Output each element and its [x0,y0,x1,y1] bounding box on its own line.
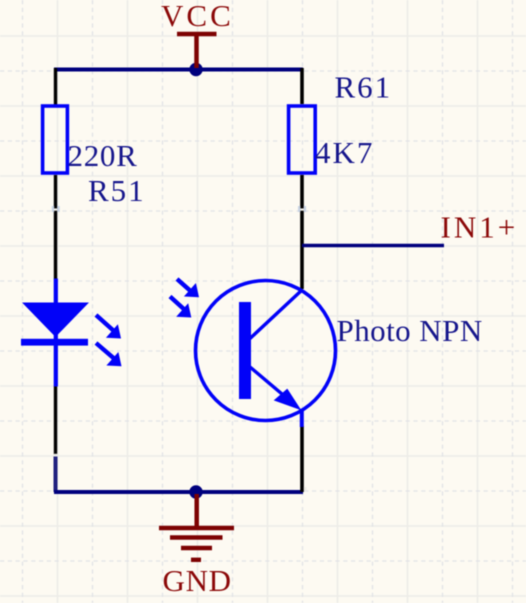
resistor R61 [289,106,316,173]
svg-text:R61: R61 [335,70,393,105]
wire left vertical lower segment (black part) [54,386,57,455]
wire left vertical middle segment [54,175,57,279]
wire joint artifact on left wire at black-navy transition [54,454,59,456]
svg-text:IN1+: IN1+ [441,210,519,245]
power symbol VCC [177,34,217,68]
corner artifact at bottom-right [304,487,307,490]
wire right vertical lower segment [300,426,304,492]
phototransistor emitter pin stub [300,410,304,427]
phototransistor Q51 body [196,281,336,421]
wire right vertical middle segment [300,175,304,289]
wire IN1+ stub [302,244,444,248]
wire VCC rail (top horizontal) [54,68,303,72]
photo arrows into transistor [170,279,199,318]
wire left vertical upper segment [54,68,57,105]
LED D51 body [21,303,89,346]
wire left vertical lower segment (navy part) [54,457,58,493]
wire right vertical upper segment [300,68,304,104]
phototransistor emitter arrowhead [274,389,302,411]
svg-text:VCC: VCC [161,0,234,33]
LED D51 pin leads [54,279,58,387]
svg-text:4K7: 4K7 [315,135,374,170]
wire crossing artifact on right wire [298,206,306,212]
svg-text:Photo NPN: Photo NPN [337,313,483,348]
svg-text:GND: GND [163,563,232,598]
resistor R51 [43,106,68,173]
junction at VCC rail [189,63,202,76]
ground symbol [159,494,234,560]
junction at GND rail [189,485,202,498]
wire crossing artifact on left wire [52,206,60,212]
wire GND rail (bottom horizontal) [54,490,303,494]
svg-text:R51: R51 [88,173,146,208]
svg-text:220R: 220R [68,138,138,173]
LED emission arrows [96,315,122,366]
